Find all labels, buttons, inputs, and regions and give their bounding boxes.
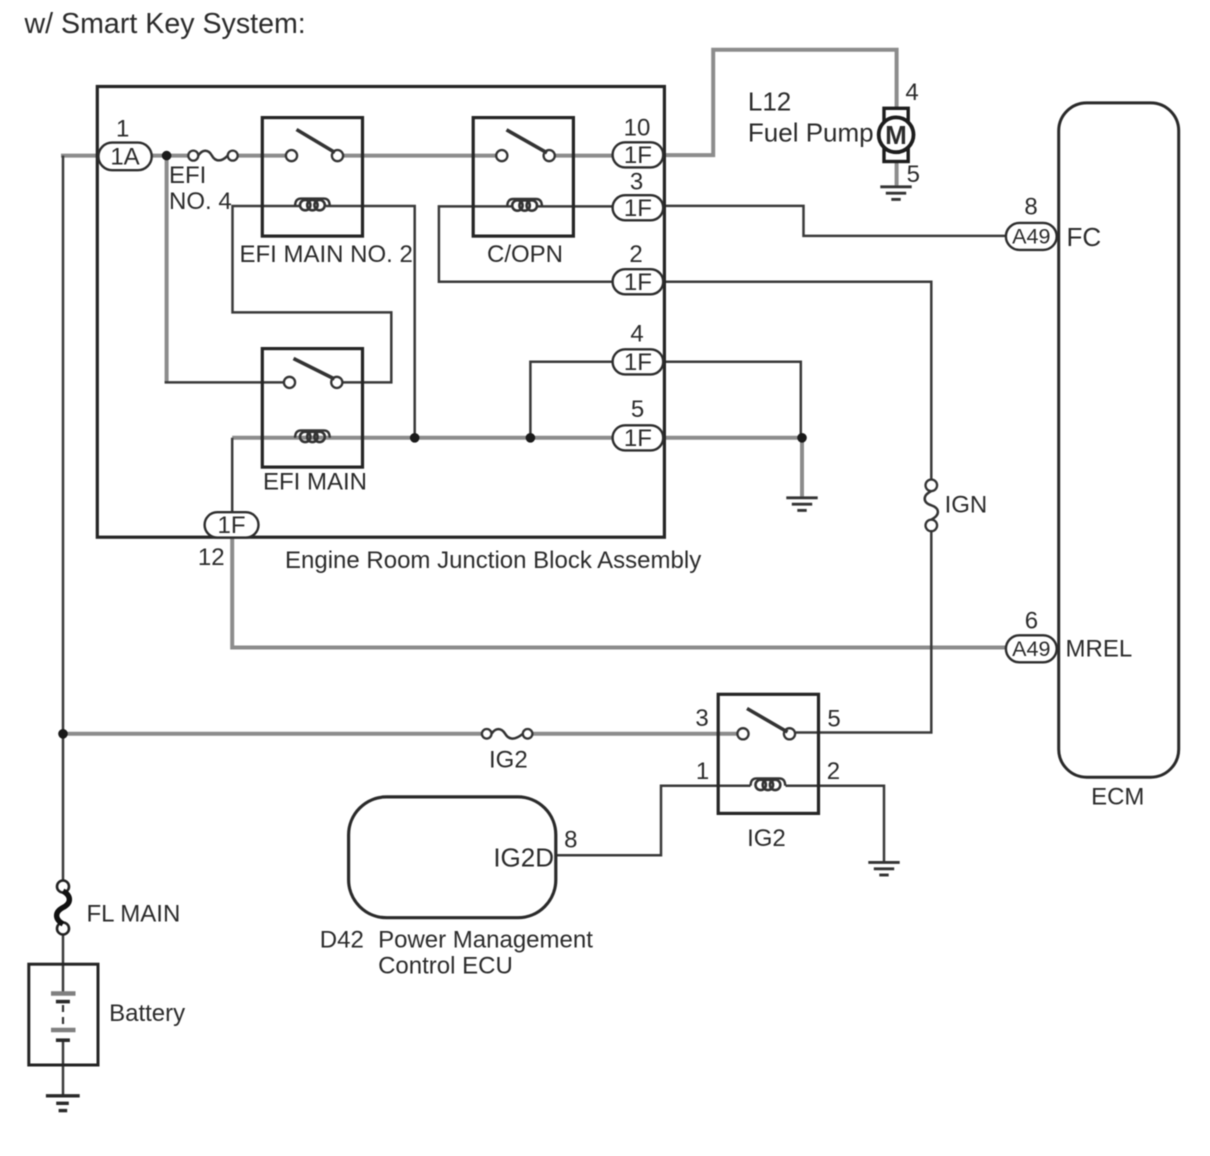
svg-text:Battery: Battery [109, 1000, 185, 1027]
svg-text:IG2: IG2 [489, 747, 528, 774]
svg-text:C/OPN: C/OPN [487, 241, 563, 268]
svg-text:EFI MAIN NO. 2: EFI MAIN NO. 2 [240, 241, 413, 268]
svg-text:Power Management: Power Management [378, 927, 593, 954]
svg-text:5: 5 [907, 161, 920, 188]
svg-text:1F: 1F [624, 269, 652, 296]
svg-text:6: 6 [1025, 608, 1038, 635]
svg-text:1F: 1F [624, 195, 652, 222]
svg-text:4: 4 [630, 320, 643, 347]
svg-text:1: 1 [696, 758, 709, 785]
svg-text:IG2: IG2 [747, 825, 786, 852]
svg-text:2: 2 [827, 758, 840, 785]
svg-text:3: 3 [630, 169, 643, 196]
svg-text:EFI MAIN: EFI MAIN [263, 469, 367, 496]
svg-text:Fuel Pump: Fuel Pump [748, 118, 874, 148]
svg-text:IGN: IGN [945, 492, 988, 519]
svg-text:EFI: EFI [169, 162, 206, 189]
svg-text:4: 4 [905, 79, 918, 106]
svg-text:M: M [885, 120, 907, 150]
svg-text:2: 2 [629, 241, 642, 268]
svg-text:MREL: MREL [1066, 636, 1133, 663]
svg-text:FC: FC [1067, 222, 1102, 252]
svg-text:L12: L12 [748, 87, 791, 117]
svg-text:1F: 1F [624, 425, 652, 452]
svg-text:1F: 1F [217, 512, 245, 539]
svg-text:ECM: ECM [1091, 784, 1144, 811]
svg-text:1A: 1A [110, 144, 139, 171]
svg-text:Engine Room Junction Block Ass: Engine Room Junction Block Assembly [285, 547, 701, 574]
svg-text:3: 3 [695, 705, 708, 732]
svg-text:8: 8 [564, 827, 577, 854]
svg-text:NO. 4: NO. 4 [169, 188, 232, 215]
svg-text:1F: 1F [624, 349, 652, 376]
svg-text:w/ Smart Key System:: w/ Smart Key System: [24, 8, 306, 40]
svg-text:FL MAIN: FL MAIN [87, 901, 181, 928]
svg-text:5: 5 [827, 706, 840, 733]
svg-text:A49: A49 [1012, 637, 1050, 661]
svg-text:12: 12 [198, 544, 225, 571]
svg-text:IG2D: IG2D [493, 843, 554, 873]
svg-text:1: 1 [116, 116, 129, 143]
svg-text:10: 10 [624, 115, 651, 142]
svg-text:D42: D42 [320, 927, 364, 954]
svg-text:A49: A49 [1012, 225, 1050, 249]
svg-text:5: 5 [631, 396, 644, 423]
svg-text:1F: 1F [624, 142, 652, 169]
svg-text:8: 8 [1024, 194, 1037, 221]
svg-text:Control ECU: Control ECU [378, 953, 513, 980]
